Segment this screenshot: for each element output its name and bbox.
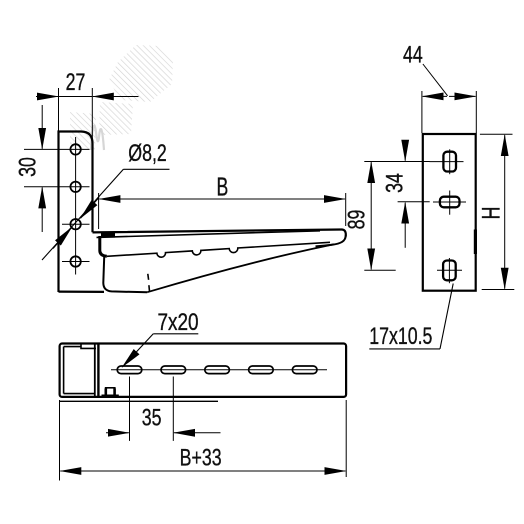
gusset left edge [103, 257, 147, 292]
svg-text:7x20: 7x20 [157, 308, 198, 336]
dim H [480, 134, 514, 289]
left block (plate from top) [64, 344, 99, 397]
dim B [99, 193, 346, 229]
plate bottom edge [59, 291, 105, 293]
slot T1 [117, 366, 142, 374]
svg-text:B: B [217, 172, 229, 201]
svg-text:Ø8,2: Ø8,2 [128, 140, 166, 166]
label 7x20 with leader [122, 334, 198, 367]
dim 34 [385, 140, 430, 248]
watermark [70, 45, 173, 150]
hole H1 [24, 144, 90, 154]
label Ø8,2 with leader [42, 169, 170, 260]
svg-text:44: 44 [403, 42, 423, 68]
slot T2 [161, 366, 186, 374]
arm underside line with slot bumps [107, 242, 330, 257]
arm tip curve [316, 236, 346, 247]
svg-text:35: 35 [142, 405, 162, 431]
svg-text:17x10.5: 17x10.5 [369, 324, 432, 350]
bar outline [60, 344, 347, 397]
svg-text:89: 89 [344, 210, 370, 230]
dim 89 (left of end view) [364, 162, 400, 271]
plate rectangle [423, 134, 476, 291]
svg-text:34: 34 [382, 173, 408, 193]
dim 30 [41, 105, 43, 232]
label 17x10.5 with leader [369, 284, 453, 349]
slot S2 (horizontal) [433, 191, 466, 215]
svg-text:30: 30 [15, 157, 41, 177]
dim 35 [106, 377, 221, 441]
slot T5 [292, 366, 317, 374]
gusset bend dashes [148, 274, 150, 292]
bottom flange line [60, 400, 218, 402]
dim B+33 [60, 400, 347, 481]
arm top edge [93, 229, 346, 236]
arm root bend (thick L) [100, 236, 107, 256]
weld slot (black) [101, 233, 115, 238]
svg-text:H: H [476, 207, 505, 220]
slot S1 (vertical 17x10.5) [430, 149, 464, 174]
dim 44 [422, 64, 476, 133]
slot S3 (vertical) [437, 258, 462, 283]
small tab [102, 388, 119, 396]
svg-text:27: 27 [66, 69, 86, 95]
gusset diagonal edge [147, 244, 334, 292]
hole H3 [62, 219, 90, 229]
hole H4 [62, 256, 90, 266]
arm edge mark on right side [474, 230, 477, 255]
slots centerline [111, 369, 327, 371]
hole center vertical line [75, 137, 77, 275]
arm second line [97, 231, 321, 238]
dim 27 [36, 88, 139, 140]
slot T3 [205, 366, 230, 374]
slot T4 [249, 366, 274, 374]
hole H2 [24, 182, 90, 192]
svg-text:B+33: B+33 [180, 445, 222, 471]
plate outline [59, 132, 93, 293]
